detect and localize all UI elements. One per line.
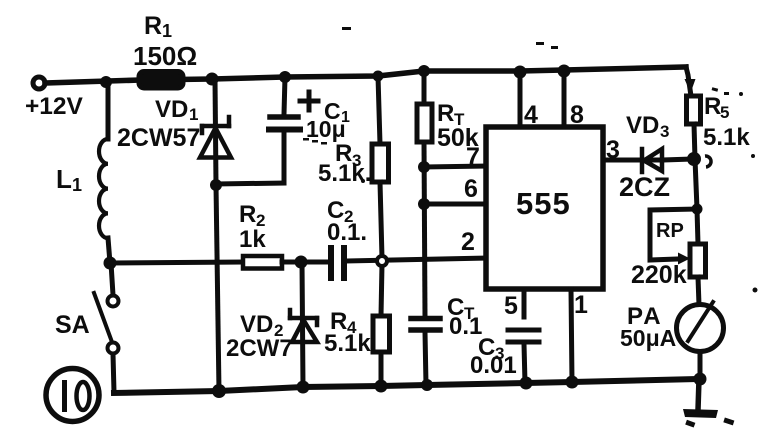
svg-text:5.1k: 5.1k bbox=[324, 330, 371, 357]
junction ground-R4 bbox=[375, 380, 388, 393]
junction rail-RT bbox=[418, 65, 430, 77]
svg-text:SA: SA bbox=[55, 311, 90, 339]
arrow down at top-right corner bbox=[685, 79, 696, 93]
svg-text:6: 6 bbox=[464, 175, 478, 203]
svg-text:R: R bbox=[437, 100, 454, 127]
junction ground-VD1 branch bbox=[212, 384, 226, 398]
capacitor C1 bottom lead bbox=[282, 132, 287, 183]
svg-text:1: 1 bbox=[72, 175, 82, 195]
resistor R3 top lead bbox=[378, 76, 380, 144]
terminal +12V bbox=[33, 77, 45, 89]
ground symbol bbox=[683, 409, 718, 418]
svg-text:VD: VD bbox=[626, 112, 659, 139]
svg-text:7: 7 bbox=[466, 143, 480, 171]
resistor RT bbox=[417, 104, 432, 142]
wire R2 to C2 bbox=[282, 260, 328, 265]
svg-text:3: 3 bbox=[606, 136, 620, 164]
resistor R5 bbox=[687, 96, 701, 124]
potentiometer RP wiper arm bbox=[650, 209, 697, 260]
diode VD2 zener bbox=[290, 310, 317, 342]
svg-text:8: 8 bbox=[570, 101, 584, 129]
svg-text:RP: RP bbox=[656, 220, 684, 242]
svg-text:50μA: 50μA bbox=[620, 325, 676, 351]
inductor L1 bbox=[99, 139, 108, 238]
resistor R1 bbox=[139, 72, 183, 89]
svg-text:1: 1 bbox=[162, 21, 172, 41]
junction rail-pin4 bbox=[514, 66, 527, 79]
potentiometer RP body bbox=[697, 209, 698, 244]
diode VD3 bbox=[642, 149, 662, 172]
capacitor C1 bbox=[270, 114, 298, 120]
resistor R4 bbox=[373, 316, 390, 352]
wire pin7 bbox=[424, 166, 486, 167]
diode VD1 zener bbox=[200, 117, 231, 158]
wire node3 down to RP bbox=[695, 159, 697, 209]
svg-text:150Ω: 150Ω bbox=[133, 41, 197, 71]
meter PA bbox=[677, 305, 724, 352]
figure number 10 bbox=[46, 369, 99, 422]
scan noise specks bbox=[303, 27, 758, 293]
wire pin5 lead bbox=[522, 289, 527, 317]
wire switch SA top lead bbox=[111, 263, 113, 295]
svg-text:555: 555 bbox=[516, 186, 571, 221]
svg-text:2CW7: 2CW7 bbox=[226, 335, 293, 362]
svg-text:R: R bbox=[239, 201, 256, 228]
capacitor CT bottom lead bbox=[425, 332, 426, 385]
wire pin6 bbox=[424, 202, 486, 207]
wire VD1 node to ground rail bbox=[216, 185, 219, 391]
svg-text:10μ: 10μ bbox=[306, 116, 346, 142]
wire switch SA bottom lead bbox=[113, 354, 114, 392]
svg-text:R: R bbox=[704, 93, 721, 120]
wire VD3 to node bbox=[662, 159, 694, 160]
svg-text:0.1.: 0.1. bbox=[327, 219, 367, 246]
wire R5 bottom lead bbox=[694, 124, 695, 159]
svg-text:5.1k: 5.1k bbox=[703, 124, 750, 151]
wire RT top lead bbox=[422, 71, 427, 104]
svg-text:R: R bbox=[144, 12, 162, 40]
switch SA bbox=[108, 296, 119, 307]
svg-text:+12V: +12V bbox=[25, 93, 84, 120]
wire pin2 row bbox=[347, 258, 486, 261]
svg-text:220k: 220k bbox=[631, 261, 687, 289]
node 2 open junction bbox=[377, 256, 387, 266]
wire pin1 bbox=[571, 289, 572, 382]
svg-text:VD: VD bbox=[155, 96, 188, 123]
junction RT-pin7 bbox=[418, 161, 430, 173]
svg-text:4: 4 bbox=[524, 101, 538, 129]
wire pin8 bbox=[562, 70, 567, 127]
resistor R2 bbox=[243, 256, 282, 269]
svg-text:VD: VD bbox=[240, 311, 273, 338]
capacitor CT bbox=[411, 316, 440, 322]
resistor R3 bottom lead bbox=[380, 182, 382, 258]
wire RT to CT bbox=[424, 142, 425, 316]
wire L1 top bbox=[106, 81, 111, 139]
wire bottom ground rail bbox=[114, 379, 700, 393]
diode VD2 top lead bbox=[302, 262, 303, 387]
capacitor C2 bbox=[328, 248, 334, 278]
svg-text:3: 3 bbox=[660, 122, 669, 141]
wire top-right corner down bbox=[686, 67, 691, 96]
svg-text:5: 5 bbox=[720, 103, 729, 122]
potentiometer RP wiper arrowhead bbox=[678, 253, 690, 265]
junction RP wiper tap bbox=[692, 204, 703, 215]
wire row R2 left bbox=[110, 262, 243, 263]
junction rail-pin8 bbox=[558, 65, 571, 78]
junction rail-L1 bbox=[100, 76, 112, 88]
junction rail-R3 bbox=[373, 71, 384, 82]
IC U1 555 bbox=[486, 127, 603, 289]
capacitor C3 bbox=[508, 328, 539, 333]
capacitor C3 bottom lead bbox=[524, 344, 525, 383]
wire pin4 bbox=[518, 71, 523, 127]
junction VD1-C1 bottom node bbox=[210, 179, 222, 191]
junction ground-C3 bbox=[520, 377, 533, 390]
wire R4 top lead bbox=[381, 264, 382, 316]
svg-text:L: L bbox=[56, 164, 72, 194]
junction rail-C1 bbox=[279, 71, 291, 83]
junction ground-VD2 bbox=[297, 381, 310, 394]
label C1 plus sign bbox=[300, 99, 318, 104]
diode VD1 zener lead bbox=[215, 79, 216, 185]
junction RT-pin6 bbox=[418, 198, 430, 210]
wire VD1 node to C1 bottom bbox=[216, 183, 284, 184]
junction L1-SA-R2 row bbox=[104, 257, 117, 270]
node 3 junction VD3-R5 bbox=[687, 152, 701, 166]
resistor R4 bottom lead bbox=[379, 352, 384, 386]
junction ground-PA bbox=[694, 373, 707, 386]
wire top supply rail bbox=[45, 67, 686, 83]
wire to ground bbox=[698, 379, 699, 410]
junction R2-VD2 bbox=[295, 256, 308, 269]
junction ground-pin1 bbox=[566, 376, 579, 389]
capacitor C1 top lead bbox=[284, 77, 285, 114]
wire PA bottom bbox=[698, 352, 703, 379]
resistor R3 bbox=[372, 144, 389, 182]
svg-text:1k: 1k bbox=[239, 226, 266, 253]
svg-text:1: 1 bbox=[189, 105, 198, 124]
junction rail-VD1 bbox=[206, 73, 219, 86]
wire pin3 bbox=[603, 158, 662, 163]
svg-text:2CZ: 2CZ bbox=[619, 172, 670, 202]
svg-text:5: 5 bbox=[504, 292, 518, 320]
junction ground-CT bbox=[421, 379, 433, 391]
wire L1 bottom bbox=[108, 238, 110, 263]
svg-text:2: 2 bbox=[461, 228, 475, 256]
svg-text:2CW57: 2CW57 bbox=[117, 124, 200, 152]
svg-text:1: 1 bbox=[574, 291, 588, 319]
svg-text:0.01: 0.01 bbox=[470, 352, 517, 379]
